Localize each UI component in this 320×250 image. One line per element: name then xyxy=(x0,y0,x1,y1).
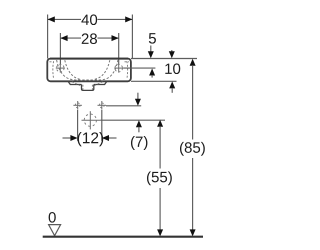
dimension (12) extension line right xyxy=(101,110,103,141)
dimension (12) arrow left xyxy=(63,137,72,139)
dimension (85) line with arrows xyxy=(190,59,196,66)
washbasin top edge xyxy=(50,58,128,60)
dimension (55) line with arrows xyxy=(157,120,163,127)
drain hidden dash right diagonal xyxy=(94,82,102,86)
dimension 28 arrow right xyxy=(112,35,119,41)
ground line xyxy=(43,236,203,238)
dimension (12) label xyxy=(78,132,104,146)
dimension 40 line xyxy=(48,18,81,20)
apron step below basin xyxy=(68,81,107,84)
dimension 40 arrow left xyxy=(48,16,55,22)
dimension 40 arrow right xyxy=(125,16,132,22)
washbasin body outline xyxy=(47,59,131,82)
dimension 5 label xyxy=(149,33,156,43)
dimension 40 label xyxy=(81,14,97,25)
tap hole cross right xyxy=(114,64,123,73)
dimension 10 arrow down xyxy=(171,50,173,52)
dimension 28 extension line left xyxy=(59,33,61,64)
dimension (7) label xyxy=(131,136,147,150)
basin inner wall dashed right xyxy=(126,61,129,78)
tap hole extension line right xyxy=(123,67,155,69)
large supply cross xyxy=(82,111,101,129)
dimension 10 arrow up xyxy=(169,81,175,88)
drain hidden dash left diagonal xyxy=(72,82,80,86)
dimension 40 extension line right xyxy=(131,15,133,59)
tap hole cross left xyxy=(56,64,65,73)
dimension 5 arrow up xyxy=(149,69,155,76)
dimension 40 extension line left xyxy=(47,15,49,59)
dimension (55) label xyxy=(147,171,172,185)
dimension (12) arrow right xyxy=(108,137,116,139)
datum zero label xyxy=(49,212,56,223)
dimension (85) label xyxy=(180,142,205,156)
basin inner rim dash right xyxy=(125,61,130,63)
basin bottom extension line right xyxy=(131,80,177,82)
extension from large cross right xyxy=(100,119,165,121)
extension from right small cross xyxy=(106,105,141,107)
small mounting cross right xyxy=(98,101,107,110)
basin inner rim dash left xyxy=(50,61,55,63)
dimension 28 label xyxy=(82,33,97,44)
dimension (12) extension line left xyxy=(77,110,79,141)
dimension 5 arrow down xyxy=(150,46,152,53)
basin top extension line right xyxy=(131,58,197,60)
dimension 28 line xyxy=(60,37,81,39)
dimension 10 label xyxy=(165,63,180,74)
dimension 28 extension line right xyxy=(118,33,120,64)
drain trap outline xyxy=(82,85,94,91)
large supply dashed circle xyxy=(84,114,96,126)
datum triangle xyxy=(49,225,61,236)
bowl hidden outline xyxy=(57,60,118,80)
dimension 28 arrow left xyxy=(60,35,67,41)
small mounting cross left xyxy=(73,101,82,110)
dimension (7) arrow down xyxy=(137,93,139,100)
dimension (7) arrow up xyxy=(136,120,142,127)
bowl hidden edge right inner xyxy=(94,60,110,79)
drain hidden dash vertical left xyxy=(82,85,84,90)
basin inner wall dashed left xyxy=(52,61,55,78)
drain hidden dash vertical right xyxy=(91,85,93,90)
bowl hidden edge left inner xyxy=(65,60,81,79)
